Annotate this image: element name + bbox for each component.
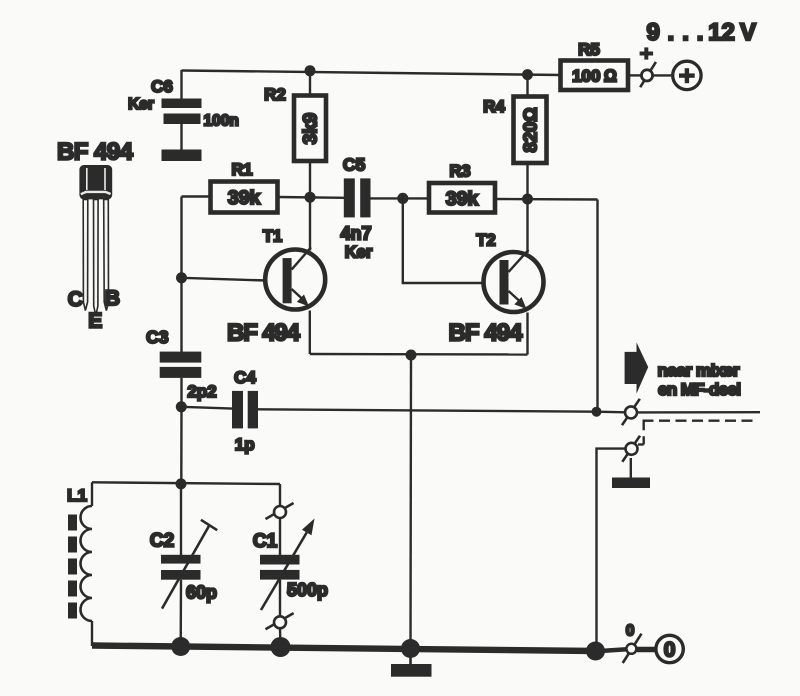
wire supply rail top <box>182 71 562 76</box>
svg-text:BF 494: BF 494 <box>449 320 524 347</box>
svg-text:C4: C4 <box>234 368 256 387</box>
svg-text:Ker: Ker <box>345 244 373 262</box>
svg-text:C3: C3 <box>146 327 169 347</box>
svg-text:C1: C1 <box>253 531 278 552</box>
terminal output 1 <box>622 399 640 425</box>
wire T1 emitter down <box>309 311 311 355</box>
svg-text:100 Ω: 100 Ω <box>572 67 617 86</box>
wire C1 to rail <box>279 628 282 647</box>
terminal 0 <box>623 623 642 664</box>
svg-text:Ker: Ker <box>128 96 154 113</box>
wire R5 to terminal <box>628 74 642 76</box>
svg-text:C6: C6 <box>151 77 173 96</box>
wire down to tank <box>180 407 183 484</box>
terminal C1 top <box>266 503 294 519</box>
svg-text:39k: 39k <box>228 187 261 209</box>
svg-text:820Ω: 820Ω <box>519 107 540 152</box>
node junction output <box>592 407 602 417</box>
svg-text:BF 494: BF 494 <box>57 139 134 166</box>
wire output line right <box>637 411 760 414</box>
svg-text:R3: R3 <box>449 163 470 181</box>
capacitor C4 1p <box>232 368 258 454</box>
terminal output 2 <box>622 436 640 462</box>
svg-text:C5: C5 <box>343 155 366 175</box>
wire C2 bottom <box>179 580 182 647</box>
wire feedback vertical right <box>596 200 598 412</box>
wire rail to terminal 0 <box>604 649 627 651</box>
capacitor C1 500p variable <box>253 519 328 611</box>
wire dashed return line <box>643 420 759 422</box>
capacitor C2 60p trimmer <box>150 520 217 609</box>
node junction center ground <box>401 639 420 658</box>
svg-text:C2: C2 <box>150 531 174 552</box>
wire C4 left <box>181 407 232 409</box>
wire R2 to base line <box>309 161 311 198</box>
svg-text:T2: T2 <box>476 232 495 250</box>
svg-text:0: 0 <box>664 639 676 662</box>
node 0 output circle <box>656 635 683 662</box>
svg-text:3k9: 3k9 <box>301 113 322 145</box>
node junction C5/R3/T2 base <box>397 193 408 204</box>
transistor T1 <box>227 228 325 347</box>
svg-text:L1: L1 <box>67 486 87 505</box>
node junction R1/R2/T1 collector <box>305 192 316 203</box>
svg-text:C: C <box>68 288 83 311</box>
wire C3 to C4 node <box>180 378 182 407</box>
svg-text:500p: 500p <box>287 580 328 600</box>
node junction C1/rail <box>271 637 291 657</box>
node junction rail/R2 <box>305 65 316 76</box>
wire C6 to ground bar <box>180 124 182 150</box>
wire C6 drop from rail <box>180 70 182 99</box>
node junction rail/terminal 0 <box>586 642 605 661</box>
wire T1 base <box>182 278 267 281</box>
svg-text:4n7: 4n7 <box>340 224 371 244</box>
wire output to terminal <box>597 411 627 414</box>
svg-text:39k: 39k <box>446 188 479 210</box>
inductor L1 core dashes <box>68 515 77 619</box>
wire R4 to line <box>526 163 528 200</box>
resistor R4 820ohm <box>483 97 546 164</box>
resistor R3 39k <box>429 163 495 213</box>
wire C1 lower <box>279 580 281 617</box>
svg-text:100n: 100n <box>204 113 239 130</box>
ground (chassis bar under C6) <box>162 150 202 162</box>
inductor L1 <box>67 482 92 646</box>
terminal C1 bottom <box>266 613 294 629</box>
svg-text:0: 0 <box>626 623 635 640</box>
ground (bar below terminal 2) <box>612 478 650 489</box>
wire C2 top <box>180 484 182 556</box>
wire C1 upper <box>279 518 281 556</box>
svg-text:2p2: 2p2 <box>187 382 216 401</box>
wire T1 collector <box>309 197 311 250</box>
resistor R5 100ohm <box>561 40 629 90</box>
wire C1 top corner <box>279 484 281 507</box>
wire base line left segment <box>182 195 212 197</box>
svg-text:R4: R4 <box>483 97 505 116</box>
svg-text:naar mixer: naar mixer <box>658 361 740 380</box>
node junction T1 base <box>176 272 187 283</box>
wire emitter rail <box>310 353 528 356</box>
svg-text:BF 494: BF 494 <box>227 320 301 347</box>
svg-text:R5: R5 <box>578 40 600 59</box>
arrow naar mixer <box>625 342 649 393</box>
wire rail to R2 <box>309 71 311 96</box>
wire T2 collector <box>526 199 528 253</box>
svg-text:1p: 1p <box>235 435 255 454</box>
wire ground rail bottom <box>92 646 596 652</box>
node junction R3/R4/T2 collector <box>522 194 533 205</box>
svg-text:R2: R2 <box>264 85 286 104</box>
svg-text:en MF-deel: en MF-deel <box>658 380 741 399</box>
ground (center bar) <box>391 664 432 677</box>
wire left vertical R1 to C3 <box>180 197 182 353</box>
node junction tank top <box>176 478 187 489</box>
resistor R1 39k <box>211 161 278 213</box>
wire terminal 0 to 0 circle <box>636 647 656 653</box>
wire dashed drop <box>643 421 645 445</box>
wire stub to center ground bar <box>409 649 412 665</box>
wire C4 to output node <box>258 409 597 411</box>
node junction C3/C4 <box>176 401 187 412</box>
resistor R2 3k9 <box>264 85 326 161</box>
wire R1 to C5 <box>278 196 345 199</box>
wire C5 to R3 <box>371 197 430 199</box>
svg-text:R1: R1 <box>231 161 252 179</box>
wire T2 emitter down <box>526 313 528 355</box>
node junction C2/rail <box>171 637 190 656</box>
node junction emitters <box>406 350 417 361</box>
transistor BF 494 package drawing <box>57 139 134 333</box>
wire stub to ground bar <box>630 458 632 478</box>
node junction rail/R4 <box>522 69 533 80</box>
battery + circle <box>673 61 701 89</box>
svg-text:T1: T1 <box>263 228 282 246</box>
wire rail to R4 <box>526 75 528 97</box>
wire terminal 2 to ground rail <box>597 449 626 651</box>
capacitor C6 <box>128 77 239 130</box>
capacitor C3 2p2 <box>146 327 217 401</box>
capacitor C5 4n7 <box>340 155 372 262</box>
wire T2 base from C5/R3 node <box>403 198 484 283</box>
wire terminal to battery <box>653 74 672 76</box>
svg-text:B: B <box>105 287 120 310</box>
terminal supply + <box>640 47 656 87</box>
wire emitter node to ground rail <box>409 355 412 648</box>
svg-text:E: E <box>88 310 102 333</box>
wire R3 to corner <box>495 198 598 201</box>
transistor T2 <box>449 232 544 347</box>
svg-text:60p: 60p <box>186 582 217 602</box>
svg-text:9...12V: 9...12V <box>647 19 757 46</box>
wire tank top rail <box>92 482 280 484</box>
